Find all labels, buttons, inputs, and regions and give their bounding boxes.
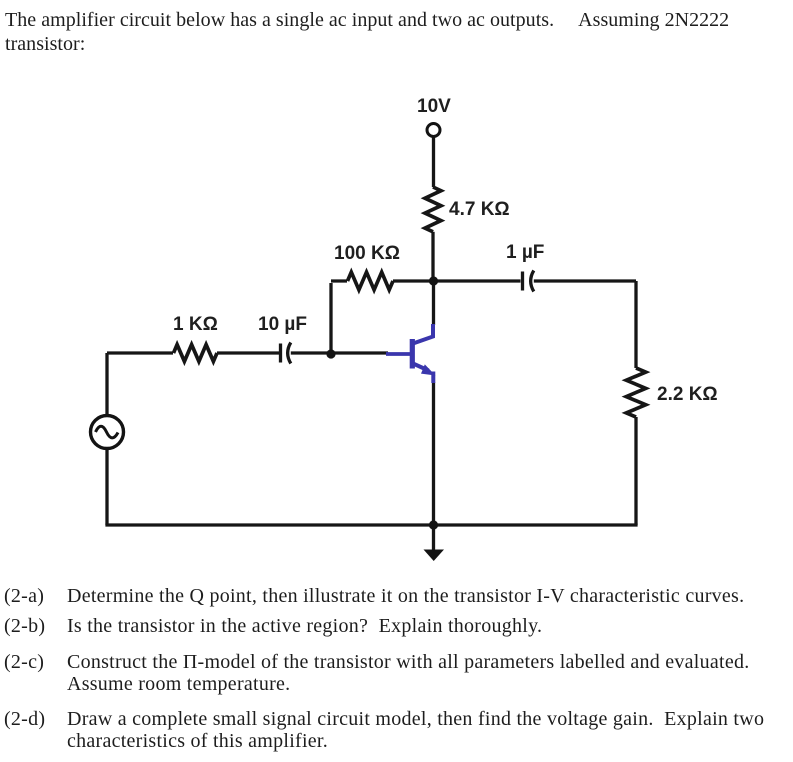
svg-text:1 KΩ: 1 KΩ (173, 314, 218, 335)
svg-text:100 KΩ: 100 KΩ (334, 243, 400, 264)
svg-text:10 µF: 10 µF (258, 314, 307, 335)
svg-text:2.2 KΩ: 2.2 KΩ (657, 384, 718, 405)
svg-text:1 µF: 1 µF (506, 242, 544, 263)
svg-text:10V: 10V (417, 96, 451, 117)
svg-text:4.7 KΩ: 4.7 KΩ (449, 199, 510, 220)
